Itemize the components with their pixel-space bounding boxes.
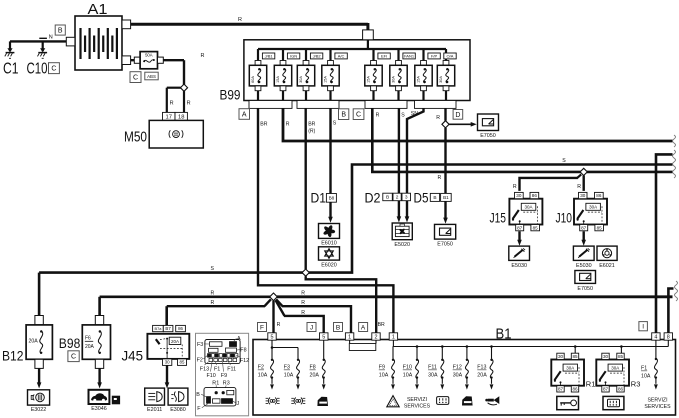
junction on S wire	[302, 269, 309, 276]
svg-text:F12: F12	[453, 365, 462, 371]
svg-text:S: S	[211, 266, 215, 272]
J10 output arrow	[583, 231, 585, 241]
connector label B	[339, 109, 349, 120]
svg-text:F13: F13	[477, 365, 486, 371]
svg-text:15A: 15A	[366, 76, 370, 83]
svg-text:R: R	[187, 101, 191, 107]
svg-text:20A: 20A	[29, 339, 39, 345]
svg-text:85: 85	[533, 225, 539, 230]
svg-text:F6: F6	[85, 336, 91, 342]
ignition key icon	[557, 396, 579, 409]
svg-text:F11: F11	[227, 366, 236, 372]
svg-text:B: B	[386, 195, 389, 201]
M50 pins 17 18	[163, 112, 176, 120]
svg-text:M50: M50	[124, 129, 147, 146]
junction on EFI wire for J10/J15	[580, 168, 587, 175]
svg-text:B: B	[196, 392, 200, 398]
svg-text:E6010: E6010	[321, 241, 337, 247]
wire to pin 17	[167, 87, 181, 89]
fuse FAN1	[397, 49, 399, 61]
junction node	[180, 84, 187, 91]
connector label F	[258, 323, 267, 332]
svg-text:R: R	[301, 290, 305, 296]
horn icon (F13)	[485, 399, 488, 402]
B1 internal wiring	[271, 340, 273, 359]
ground C10	[42, 41, 44, 51]
svg-text:E7050: E7050	[437, 241, 453, 247]
svg-text:17: 17	[166, 114, 172, 120]
svg-text:F3: F3	[197, 342, 203, 348]
svg-text:8: 8	[667, 334, 670, 340]
svg-text:SERVIZI: SERVIZI	[647, 398, 667, 404]
wire stub to B1 pin 4	[656, 154, 673, 332]
svg-text:5: 5	[322, 334, 325, 340]
svg-text:C10: C10	[27, 61, 48, 78]
car body E3046	[89, 390, 110, 404]
connector label B	[334, 323, 343, 332]
svg-text:R: R	[238, 17, 242, 23]
svg-text:SERVIZI: SERVIZI	[407, 397, 427, 403]
svg-text:30: 30	[165, 360, 170, 365]
svg-text:3: 3	[405, 195, 408, 201]
svg-text:R: R	[436, 115, 440, 121]
wire SN from B99 F/P to D2 pin 3	[407, 108, 424, 193]
fuse 50A on A1 output	[131, 59, 135, 61]
svg-text:A: A	[237, 336, 241, 342]
svg-text:85: 85	[572, 354, 578, 359]
svg-text:E7050: E7050	[577, 286, 593, 292]
blower E6010	[319, 224, 340, 239]
svg-text:10A: 10A	[284, 372, 294, 378]
load E7050 top	[478, 114, 499, 131]
fuse O/A	[445, 49, 447, 61]
inset fusebox location diagram	[196, 333, 249, 416]
svg-text:B7a: B7a	[154, 326, 162, 331]
ground C1	[9, 41, 11, 51]
svg-text:15A: 15A	[276, 76, 280, 83]
door icon (F12)	[462, 396, 473, 405]
svg-text:B: B	[336, 324, 340, 331]
connector label C	[353, 109, 364, 120]
svg-text:R: R	[277, 322, 281, 328]
svg-text:BR: BR	[308, 122, 315, 128]
svg-text:R1: R1	[212, 380, 219, 386]
wire BR from B99 to B1 pin 1	[258, 108, 393, 332]
branch to B1 pin J-5	[276, 300, 285, 316]
connector label C	[49, 63, 60, 74]
svg-text:1: 1	[392, 334, 395, 340]
wire down to B98	[98, 297, 101, 316]
svg-text:E7050: E7050	[480, 133, 496, 139]
defrost icon box	[603, 396, 624, 409]
svg-text:BR: BR	[260, 122, 267, 128]
svg-text:87: 87	[603, 387, 609, 392]
svg-text:2: 2	[396, 195, 399, 201]
J15 output arrow	[518, 231, 520, 241]
svg-text:C: C	[356, 112, 361, 119]
wire down to B12	[38, 273, 41, 316]
svg-text:30: 30	[580, 193, 586, 198]
fuse F9	[392, 347, 394, 359]
svg-text:C: C	[51, 66, 56, 73]
fuse EFI	[372, 49, 374, 61]
fuse F11	[441, 347, 443, 359]
fuel pump E5030	[509, 246, 530, 260]
svg-text:C: C	[71, 354, 76, 361]
svg-text:D: D	[455, 112, 460, 119]
wire R net: B98/junction to right edge	[100, 295, 270, 298]
wire R to M50	[163, 59, 184, 61]
horn E3022	[28, 390, 50, 405]
svg-text:F: F	[260, 324, 264, 331]
wire N from A1 to grounds	[10, 40, 66, 42]
relay feed stubs	[574, 347, 576, 354]
svg-text:30: 30	[603, 354, 609, 359]
svg-text:B99: B99	[220, 88, 241, 103]
B99 output connector brackets	[249, 101, 292, 109]
svg-text:F12: F12	[240, 358, 249, 364]
fuse F12	[466, 347, 468, 359]
fuse F3	[297, 359, 300, 379]
fuse F2	[271, 359, 274, 379]
small icon	[112, 396, 119, 404]
svg-text:E3022: E3022	[31, 407, 47, 413]
branch to B1 pin F-5	[272, 301, 274, 333]
svg-text:E5030: E5030	[576, 263, 592, 269]
branch to B1 pin A-2	[306, 276, 377, 333]
connector label A	[359, 323, 368, 332]
wire S net: B12 to right edge	[39, 271, 303, 274]
svg-text:2: 2	[375, 334, 378, 340]
svg-text:86: 86	[572, 387, 578, 392]
svg-text:85: 85	[618, 354, 624, 359]
svg-text:B: B	[341, 112, 346, 119]
wire R from A1 to B99	[131, 23, 368, 26]
svg-text:B8: B8	[329, 196, 335, 201]
B99 internal supply bus	[367, 40, 369, 49]
svg-text:B1: B1	[443, 195, 449, 200]
fuse F8	[322, 359, 325, 379]
svg-text:E3046: E3046	[91, 406, 107, 412]
svg-text:R: R	[301, 300, 305, 306]
svg-text:F8: F8	[240, 348, 246, 354]
svg-text:E5030: E5030	[511, 263, 527, 269]
svg-text:20A: 20A	[85, 344, 95, 350]
svg-text:(R): (R)	[308, 129, 315, 135]
svg-text:R: R	[211, 300, 215, 306]
A1 pin top right	[122, 20, 131, 29]
svg-text:E6020: E6020	[321, 263, 337, 269]
svg-text:15A: 15A	[323, 76, 327, 83]
svg-text:30A: 30A	[428, 372, 438, 378]
wire R from B99 O/A	[444, 108, 446, 120]
svg-text:R: R	[301, 310, 305, 316]
svg-text:B7: B7	[165, 326, 171, 331]
svg-text:F3: F3	[284, 365, 290, 371]
connector label C	[130, 72, 141, 83]
condenser fan E5020	[392, 223, 412, 240]
svg-text:E2011: E2011	[147, 407, 162, 413]
svg-text:J10: J10	[556, 210, 573, 226]
svg-text:S: S	[562, 158, 566, 164]
svg-text:R: R	[376, 113, 380, 119]
svg-text:E6021: E6021	[599, 263, 615, 269]
A1 pin left	[66, 37, 75, 46]
svg-text:C: C	[133, 75, 138, 82]
svg-text:A/C: A/C	[338, 54, 345, 59]
connector label J	[307, 323, 316, 332]
svg-text:C1: C1	[3, 61, 19, 78]
svg-text:10A: 10A	[403, 372, 413, 378]
wire R from B99 EFI to right edge	[372, 108, 672, 171]
wire R from B99 fuse IGN to right edge	[283, 108, 673, 141]
svg-text:F10: F10	[403, 365, 412, 371]
svg-text:R: R	[577, 184, 581, 190]
load E7050	[435, 224, 456, 239]
load E5030	[573, 246, 594, 260]
svg-text:18: 18	[178, 114, 184, 120]
svg-text:30A: 30A	[299, 76, 303, 83]
svg-text:N: N	[49, 35, 53, 41]
svg-text:20A: 20A	[477, 372, 487, 378]
svg-text:FAN1: FAN1	[404, 54, 415, 59]
B1 pins	[268, 333, 276, 340]
svg-text:E5020: E5020	[394, 242, 410, 248]
svg-text:ABS: ABS	[147, 74, 156, 79]
main junction	[270, 293, 278, 301]
svg-text:F10: F10	[207, 373, 216, 379]
svg-text:F13: F13	[200, 366, 209, 372]
svg-text:R3: R3	[631, 380, 641, 389]
svg-text:30A: 30A	[611, 366, 619, 371]
relay R1	[551, 360, 584, 386]
svg-text:30A: 30A	[453, 372, 463, 378]
label ABS	[145, 72, 158, 80]
svg-text:J/B1: J/B1	[265, 54, 274, 59]
svg-text:A: A	[242, 112, 247, 119]
svg-text:J45: J45	[122, 348, 144, 364]
relay R3	[596, 360, 629, 386]
svg-text:R1: R1	[586, 380, 596, 389]
page-break marks right edge	[673, 135, 676, 147]
svg-text:30A: 30A	[525, 205, 533, 210]
fuse F1	[654, 358, 657, 379]
connector label A	[239, 109, 250, 120]
svg-text:5: 5	[271, 334, 274, 340]
svg-text:J: J	[237, 401, 240, 407]
svg-text:B: B	[58, 28, 63, 35]
wire down to J45	[165, 306, 168, 325]
wire S from B99 to D1	[329, 108, 331, 193]
svg-text:EFI: EFI	[381, 54, 387, 59]
svg-text:R: R	[170, 101, 174, 107]
wire BR(R) from B99 to junction	[305, 108, 307, 269]
fuse F10	[416, 347, 418, 359]
svg-text:30A: 30A	[589, 205, 597, 210]
fuse F/P	[422, 49, 424, 61]
svg-text:IGN: IGN	[290, 54, 297, 59]
svg-text:1: 1	[348, 334, 351, 340]
svg-text:J/B2: J/B2	[313, 54, 322, 59]
svg-text:R: R	[286, 122, 290, 128]
svg-text:F1: F1	[214, 366, 220, 372]
svg-text:10A: 10A	[258, 372, 268, 378]
wire R down to D5	[444, 128, 446, 193]
svg-text:85: 85	[597, 225, 603, 230]
connector label B	[55, 25, 65, 35]
A1 pin bottom right	[122, 56, 131, 65]
svg-text:SERVICES: SERVICES	[404, 403, 431, 409]
arrow to E7050	[449, 123, 471, 125]
svg-text:30A: 30A	[439, 76, 443, 83]
vent icon (F11)	[437, 397, 449, 405]
svg-text:F2: F2	[197, 357, 203, 363]
fuse J/B2	[305, 49, 307, 61]
headlamp E2011	[145, 388, 165, 405]
svg-text:I: I	[642, 324, 644, 331]
svg-text:F9: F9	[221, 373, 227, 379]
svg-text:R: R	[201, 53, 205, 59]
svg-text:F8: F8	[310, 365, 316, 371]
svg-text:30: 30	[516, 193, 522, 198]
svg-text:B12: B12	[2, 348, 24, 364]
fuse IGN	[282, 49, 284, 61]
fuse A/C	[329, 49, 331, 61]
svg-text:B98: B98	[59, 335, 81, 351]
svg-text:86: 86	[532, 193, 538, 198]
svg-text:A: A	[361, 324, 366, 331]
fog lamp E3080	[168, 388, 188, 405]
svg-text:87: 87	[581, 225, 587, 230]
svg-text:R: R	[211, 291, 215, 297]
fuse J/B1	[257, 49, 259, 61]
connector label D	[453, 110, 463, 120]
exterior light icon (F2)	[268, 398, 270, 405]
svg-text:20A: 20A	[171, 339, 179, 344]
svg-text:O/A: O/A	[447, 54, 454, 59]
svg-text:30A: 30A	[391, 76, 395, 83]
svg-text:85: 85	[180, 360, 185, 365]
svg-text:F2: F2	[258, 365, 264, 371]
svg-text:SERVICES: SERVICES	[644, 404, 671, 410]
svg-text:87: 87	[558, 387, 564, 392]
svg-text:J15: J15	[490, 210, 507, 226]
svg-text:D2: D2	[365, 190, 381, 206]
load E6021	[597, 246, 617, 260]
junction node D	[442, 121, 449, 128]
svg-text:20A: 20A	[310, 372, 320, 378]
svg-text:86: 86	[618, 387, 624, 392]
svg-text:S: S	[401, 113, 405, 119]
svg-text:86: 86	[596, 193, 602, 198]
svg-text:50A: 50A	[145, 53, 153, 58]
svg-text:E3080: E3080	[170, 407, 186, 413]
branch to J45 and B1 pin B-1	[265, 299, 271, 306]
svg-text:R: R	[513, 184, 517, 190]
svg-text:60A: 60A	[251, 76, 255, 83]
svg-text:R: R	[438, 175, 442, 181]
svg-text:30A: 30A	[566, 366, 574, 371]
wire to pin 18	[183, 91, 185, 112]
svg-text:D1: D1	[311, 190, 327, 206]
svg-text:BR: BR	[378, 322, 385, 328]
svg-text:B: B	[433, 195, 436, 201]
svg-text:F9: F9	[379, 365, 385, 371]
svg-text:F1: F1	[641, 366, 647, 372]
B99 supply terminal	[363, 30, 374, 40]
svg-text:86: 86	[178, 326, 183, 331]
door lock icon (F8)	[317, 397, 328, 406]
svg-text:87: 87	[517, 225, 523, 230]
svg-text:F/P: F/P	[431, 54, 438, 59]
svg-text:J: J	[310, 324, 313, 331]
A/C symbol E6020	[319, 247, 340, 260]
svg-text:S: S	[333, 121, 337, 127]
svg-text:D5: D5	[414, 190, 429, 206]
svg-text:15A: 15A	[416, 76, 420, 83]
svg-text:10A: 10A	[641, 373, 651, 379]
svg-text:F11: F11	[428, 365, 437, 371]
fuse F13	[491, 347, 493, 359]
hazard triangle icon (F9)	[387, 396, 399, 407]
svg-text:10A: 10A	[379, 372, 389, 378]
connector label I	[639, 322, 648, 331]
svg-text:4: 4	[654, 334, 657, 340]
svg-text:30: 30	[558, 354, 564, 359]
wire stub to B1 pin 8	[668, 289, 673, 333]
load E7050	[575, 271, 596, 284]
exterior light icon (F3)	[294, 398, 296, 405]
wire S from B99 FAN1 to D2 pin 2	[398, 108, 400, 193]
